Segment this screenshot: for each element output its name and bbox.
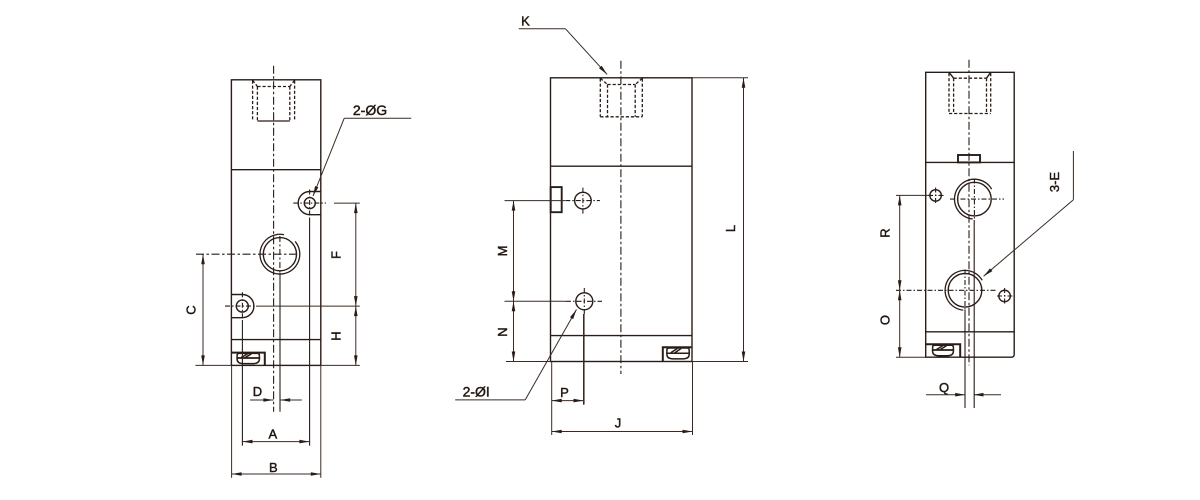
svg-text:2-ØG: 2-ØG [353,102,387,118]
svg-text:R: R [878,228,893,237]
svg-text:O: O [878,315,893,325]
svg-text:F: F [328,251,343,259]
svg-text:P: P [560,385,569,400]
svg-text:K: K [521,13,530,28]
svg-text:C: C [184,305,199,314]
svg-text:M: M [495,246,510,257]
svg-text:3-E: 3-E [1047,172,1062,193]
svg-text:L: L [723,225,738,232]
svg-text:B: B [269,460,278,475]
svg-text:J: J [615,415,622,430]
svg-text:2-ØI: 2-ØI [463,383,490,399]
svg-text:N: N [495,327,510,336]
svg-text:D: D [253,384,262,399]
svg-text:H: H [328,331,343,340]
svg-text:Q: Q [939,380,949,395]
svg-text:A: A [268,427,277,442]
